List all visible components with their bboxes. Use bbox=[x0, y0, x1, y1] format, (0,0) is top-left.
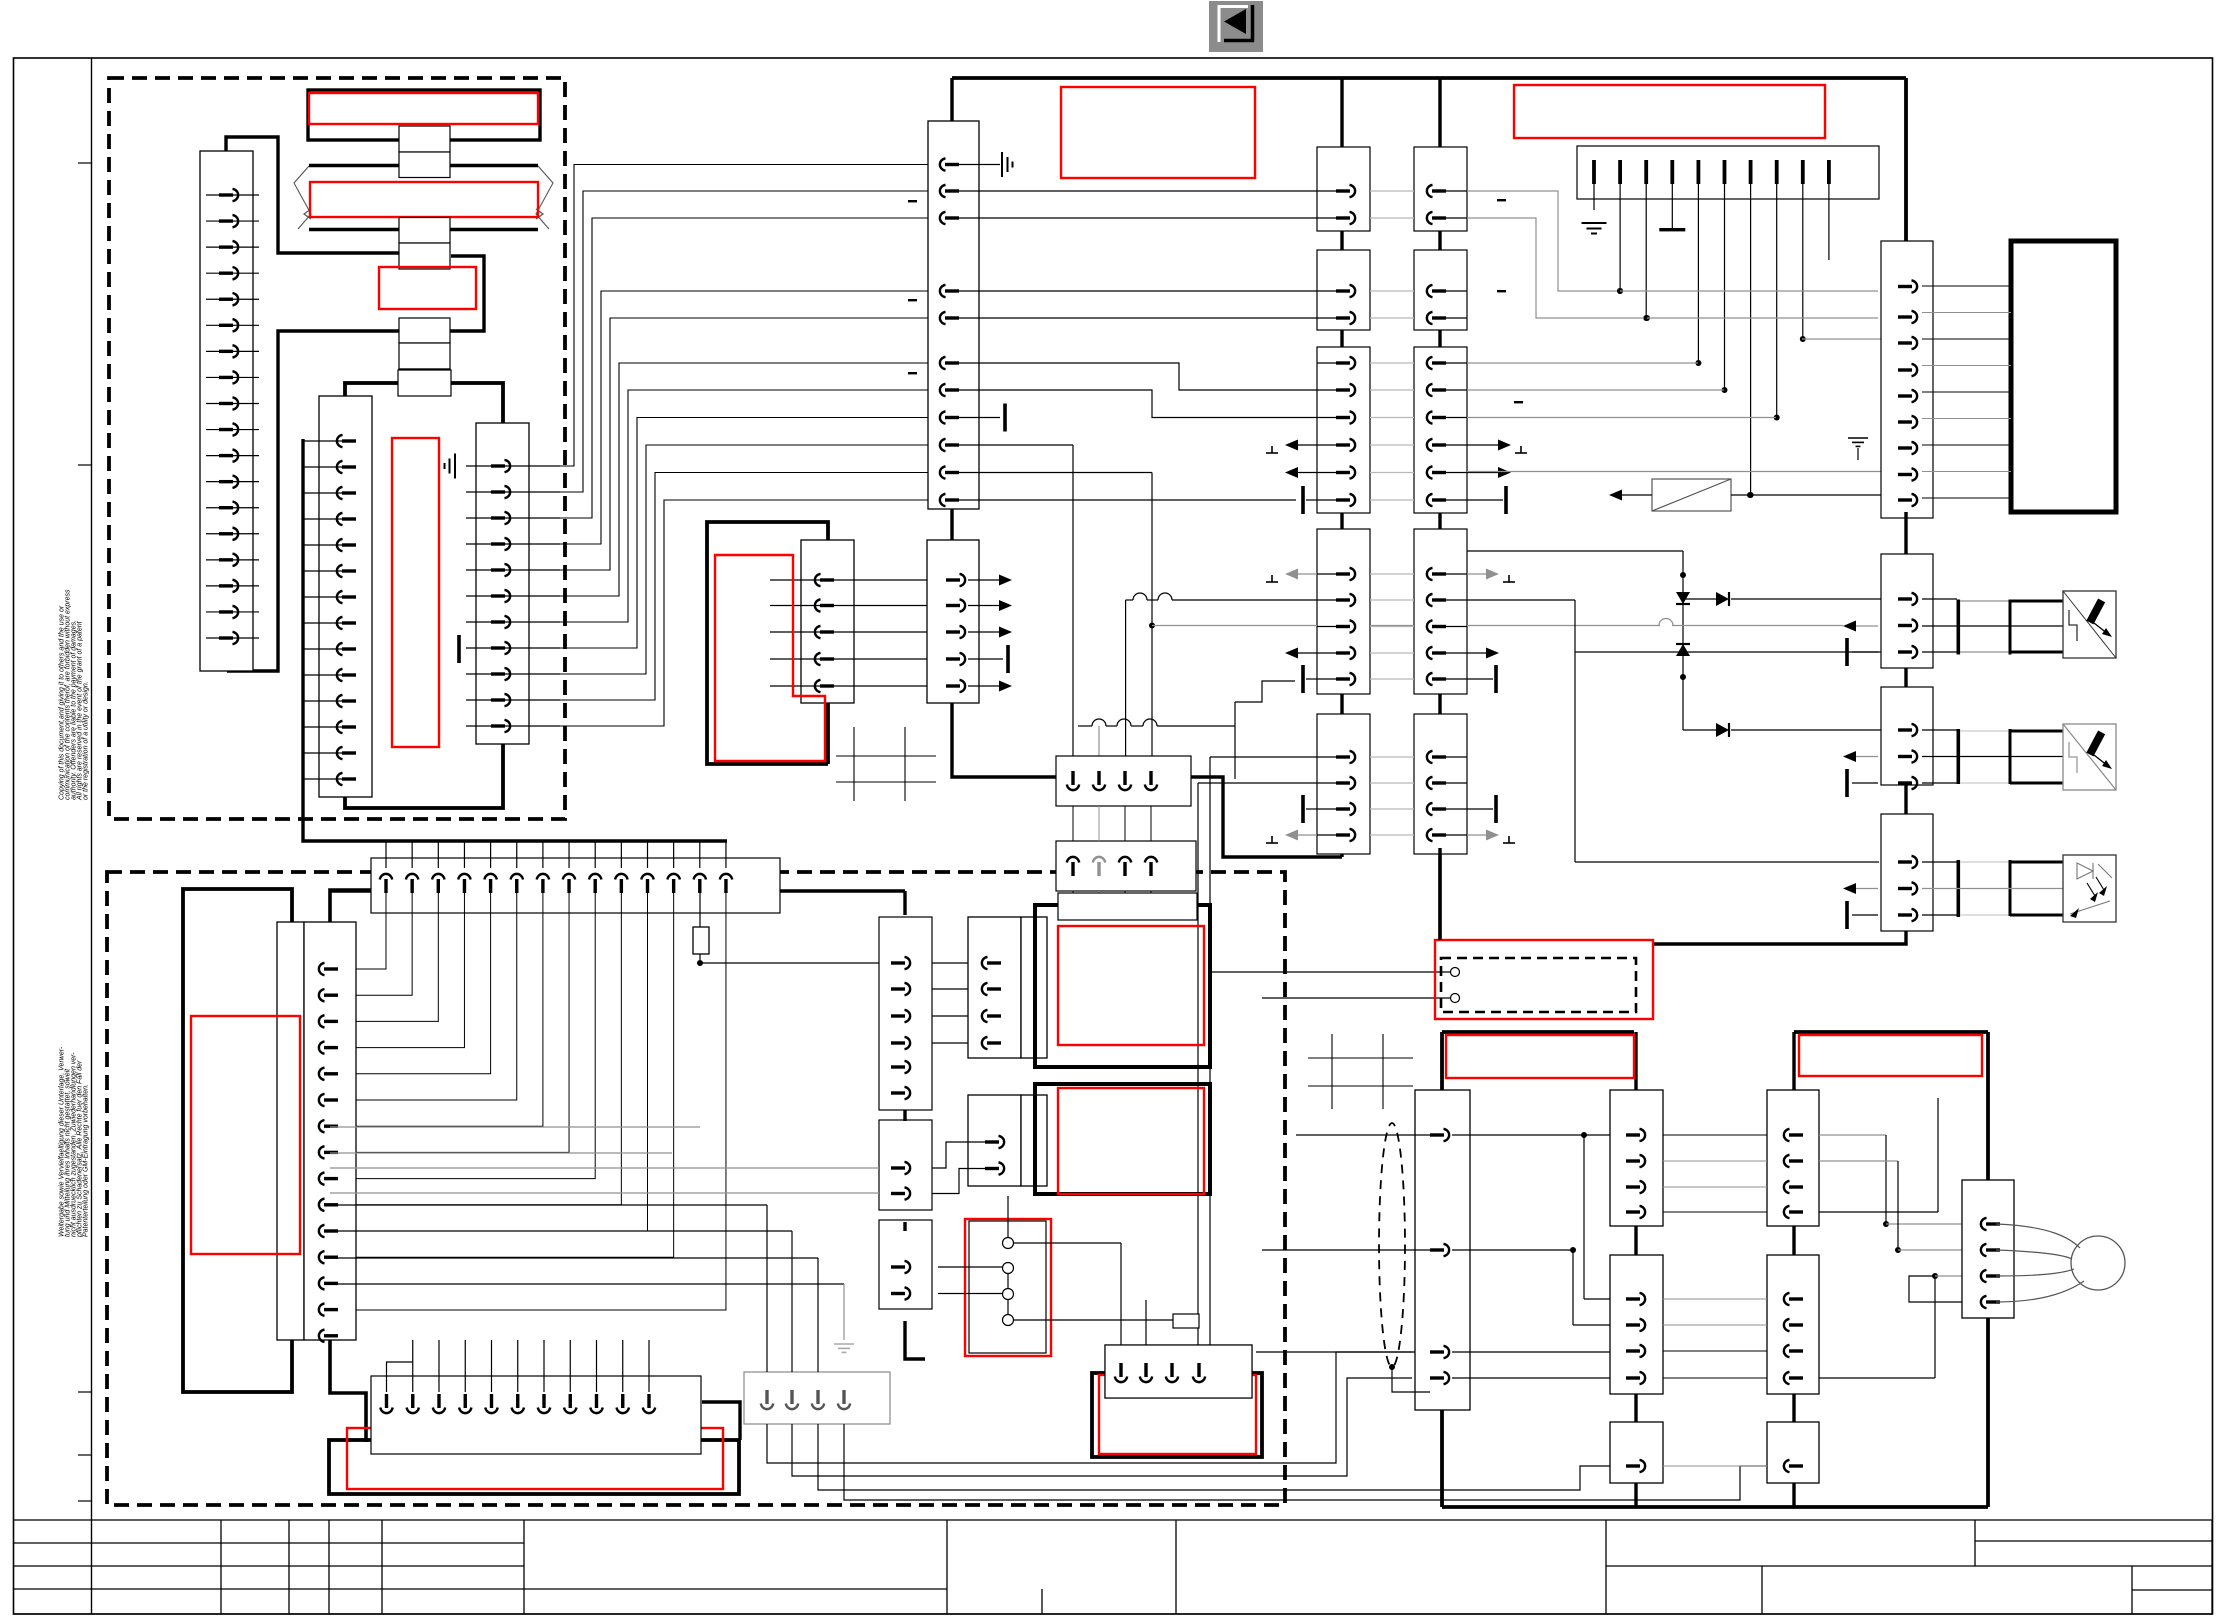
pin S3-7 bbox=[466, 621, 560, 623]
pin NM bbox=[1981, 1270, 1987, 1282]
pin P4 down bbox=[1170, 1363, 1173, 1377]
pin S4-9 bbox=[319, 1172, 325, 1184]
switch contact 2 bbox=[1003, 1263, 1014, 1274]
wire into NL bbox=[1296, 1134, 1442, 1136]
connector chain stack bbox=[399, 126, 450, 152]
pin K1 bbox=[1336, 598, 1350, 601]
pin K2 bbox=[1427, 212, 1433, 224]
pin K1 bbox=[1336, 216, 1350, 219]
wire rows S4 extensions bbox=[330, 1126, 700, 1128]
component band B2 chevron right bbox=[536, 166, 553, 229]
fold mark ticks bbox=[78, 162, 92, 164]
pin H1-4 bbox=[463, 841, 465, 868]
wire row 625 to C2 bbox=[1152, 625, 1317, 627]
wire rows to plug box bbox=[1210, 971, 1450, 973]
switch contact 1 bbox=[1003, 1238, 1014, 1249]
pin X10-5 bbox=[940, 312, 946, 324]
converter K3 bbox=[1652, 479, 1731, 511]
wire thick bus drop K2 bbox=[1438, 78, 1441, 147]
connector blocks NL2 bbox=[1610, 1090, 1663, 1226]
symbols row 445 bbox=[1266, 452, 1278, 454]
pin K4 bbox=[1898, 420, 1912, 423]
wire R1-R2 link bbox=[1150, 806, 1152, 841]
wire rows K4-1 to device bbox=[1922, 285, 2011, 287]
pin NL2 bbox=[1626, 1376, 1640, 1379]
wire jog row 363-390 bbox=[958, 363, 1338, 390]
wire F1-G2a bbox=[932, 988, 968, 990]
pin K4 bbox=[1898, 887, 1912, 890]
wire K1-K2 rows bbox=[1317, 362, 1338, 364]
pin NL bbox=[1430, 1376, 1444, 1379]
wire thick H1 backbone bbox=[330, 890, 371, 1442]
wire K1-K2 rows bbox=[1317, 290, 1338, 292]
wire NL2-NR bbox=[1663, 1211, 1767, 1213]
pin H2-10 bbox=[622, 1340, 624, 1392]
plug block P4 bbox=[1105, 1345, 1252, 1398]
pin K1 bbox=[1336, 316, 1350, 319]
pin K4 bbox=[1898, 755, 1912, 758]
pin S3-11 bbox=[466, 725, 560, 727]
highlight red box B3 bbox=[379, 267, 476, 309]
highlight red box top-mid bbox=[1061, 87, 1255, 178]
net dashes K2 jogs bbox=[1497, 199, 1506, 201]
pin NL2 bbox=[1626, 1464, 1640, 1467]
pin P4 down bbox=[1144, 1363, 1147, 1377]
pin S4-3 bbox=[319, 1015, 325, 1027]
pin H1-13 bbox=[699, 841, 701, 868]
wire exits bottom bbox=[767, 1352, 1412, 1463]
symbols row 574 bbox=[1266, 581, 1278, 583]
diode D4 row 730 bbox=[1683, 729, 1716, 731]
pin K4 bbox=[1898, 285, 1912, 288]
connector block K1-2 bbox=[1317, 250, 1370, 330]
pin S2-2 bbox=[303, 466, 356, 468]
highlight red motor label R bbox=[1799, 1035, 1982, 1076]
pin H1-12 bbox=[673, 841, 675, 868]
pin S1-6 bbox=[206, 324, 259, 326]
pin S3-6 bbox=[466, 595, 560, 597]
module M4 thick body bbox=[1092, 1373, 1262, 1457]
pin K2 bbox=[1427, 411, 1433, 423]
title block table bbox=[14, 1520, 2213, 1614]
pin K4 bbox=[1898, 498, 1912, 501]
wire R1-R2 link bbox=[1124, 806, 1126, 841]
pin F3 bbox=[891, 1265, 905, 1268]
wire NL2-NR bbox=[1663, 1350, 1767, 1352]
pin K1 bbox=[1336, 471, 1350, 474]
pin K1 bbox=[1336, 498, 1350, 501]
wire relay pin3 hop route bbox=[1125, 600, 1127, 775]
wire F1-G2a bbox=[932, 1042, 968, 1044]
wire R2 down bbox=[1072, 891, 1074, 918]
pin NL bbox=[1430, 1133, 1444, 1136]
splice pin 3 bbox=[1644, 160, 1648, 184]
wire NL2-NR bbox=[1663, 1134, 1767, 1136]
splice pin 1 bbox=[1592, 160, 1596, 184]
wire NL2-NR bbox=[1663, 1160, 1767, 1162]
pin K4 bbox=[1898, 913, 1912, 916]
pin S1-1 bbox=[206, 194, 259, 196]
wire K1-K2 rows bbox=[1317, 190, 1338, 192]
pin G1-2 bbox=[790, 1390, 793, 1404]
pin NR bbox=[1784, 1460, 1790, 1472]
pin S1-16 bbox=[206, 585, 259, 587]
pin H2-5 bbox=[491, 1340, 493, 1392]
highlight red in M4 bbox=[1099, 1375, 1256, 1454]
pin NL2 bbox=[1626, 1349, 1640, 1352]
wire thick bus drop right bbox=[1904, 78, 1908, 241]
device box big bbox=[2011, 241, 2116, 512]
symbols row 679 bbox=[1301, 665, 1305, 693]
P4 top small box bbox=[1173, 1314, 1199, 1328]
highlight red band B1 bbox=[309, 93, 538, 124]
connector strip S2 bbox=[319, 396, 372, 797]
pin R1 down bbox=[1097, 771, 1100, 785]
pin K4 bbox=[1898, 368, 1912, 371]
pin X10-4 bbox=[940, 285, 946, 297]
pin K4 bbox=[1898, 315, 1912, 318]
connector strip G2a bbox=[968, 917, 1021, 1058]
highlight red band B2 bbox=[310, 182, 538, 217]
pin K4 bbox=[1898, 781, 1912, 784]
pin X10-6 bbox=[940, 357, 946, 369]
dashed harness boundary A bbox=[109, 78, 565, 819]
pin H1-6 bbox=[516, 841, 518, 868]
pin S4-5 bbox=[319, 1068, 325, 1080]
pin F1 bbox=[891, 1091, 905, 1094]
pin S1-3 bbox=[206, 246, 259, 248]
pin X12-2 bbox=[946, 604, 960, 607]
pin H2-8 bbox=[569, 1340, 571, 1392]
pin F1 bbox=[891, 1041, 905, 1044]
pin S2-1 bbox=[303, 440, 356, 442]
pin P4 down bbox=[1119, 1363, 1122, 1377]
connector block K2-5 bbox=[1414, 714, 1467, 854]
pin X10-11 bbox=[940, 494, 946, 506]
pin NR bbox=[1784, 1372, 1790, 1384]
pin NL2 bbox=[1626, 1323, 1640, 1326]
module M1 thick frame bbox=[707, 522, 828, 764]
pin G1-4 bbox=[842, 1390, 845, 1404]
pin S1-9 bbox=[206, 402, 259, 404]
pin H2-1 bbox=[387, 1362, 413, 1392]
wire drop bundle rows 757-783 bbox=[1210, 756, 1317, 758]
pin X10-8 bbox=[940, 411, 946, 423]
pin S3-4 bbox=[466, 543, 560, 545]
connector strip S1 bbox=[200, 151, 253, 671]
pin NL2 bbox=[1626, 1210, 1640, 1213]
pin NR bbox=[1784, 1293, 1790, 1305]
component band B2 bbox=[309, 164, 538, 167]
module M2 top strip bbox=[1058, 893, 1197, 920]
wire NL routing bbox=[1452, 1134, 1610, 1136]
wire R2 down bbox=[1098, 891, 1100, 918]
pin X10-3 bbox=[940, 212, 946, 224]
pin H2-9 bbox=[596, 1340, 598, 1392]
pin S2-8 bbox=[303, 622, 356, 624]
pin S4-4 bbox=[319, 1041, 325, 1053]
splice pin 8 bbox=[1775, 160, 1779, 184]
pin F1 bbox=[891, 1065, 905, 1068]
opto group OP3 bbox=[1922, 861, 1957, 863]
pin G1-3 bbox=[816, 1390, 819, 1404]
pin NR bbox=[1784, 1155, 1790, 1167]
connector strip X12 bbox=[927, 540, 979, 703]
dashed harness boundary B bbox=[107, 872, 1285, 1505]
pin S1-4 bbox=[206, 272, 259, 274]
symbols K4-4 rows bbox=[1843, 883, 1856, 894]
pin S2-12 bbox=[303, 726, 356, 728]
pin K4 bbox=[1898, 597, 1912, 600]
wire switch rows bbox=[938, 1266, 1002, 1268]
highlight red motor label L bbox=[1446, 1035, 1634, 1078]
pin S1-12 bbox=[206, 481, 259, 483]
pin G1-1 bbox=[765, 1390, 768, 1404]
highlight red L-shape bbox=[715, 555, 825, 761]
pin K1 bbox=[1336, 361, 1350, 364]
pin K1 bbox=[1336, 443, 1350, 446]
ground chassis right bbox=[1848, 438, 1868, 446]
pin K2 bbox=[1427, 494, 1433, 506]
pin S2-13 bbox=[303, 752, 356, 754]
pin P4 down bbox=[1197, 1363, 1200, 1377]
pin K2 bbox=[1427, 829, 1433, 841]
pin R2 up bbox=[1093, 857, 1105, 863]
connector block K2-3 bbox=[1414, 347, 1467, 513]
pin NR bbox=[1784, 1129, 1790, 1141]
wire row 600 right bbox=[1467, 599, 1575, 601]
wire thick K4 to plug bbox=[1653, 931, 1906, 944]
pin S4-7 bbox=[319, 1120, 325, 1132]
pin S4-8 bbox=[319, 1146, 325, 1158]
svg-text:Patenterteilung oder GM-Eintra: Patenterteilung oder GM-Eintragung vorbe… bbox=[83, 1084, 90, 1237]
module M2 thick body bbox=[1035, 905, 1210, 1067]
splice pin 5 bbox=[1697, 160, 1701, 184]
wire K1-K2 rows bbox=[1317, 573, 1338, 575]
pin X11-4 bbox=[770, 658, 927, 660]
wire bundle S3 to X10 bbox=[521, 165, 928, 467]
pin K1 bbox=[1336, 572, 1350, 575]
pin K2 bbox=[1427, 647, 1433, 659]
switch box red bbox=[965, 1219, 1051, 1356]
pin H2-4 bbox=[464, 1340, 466, 1392]
pin K4 bbox=[1898, 446, 1912, 449]
pin K1 bbox=[1336, 781, 1350, 784]
pin G2b bbox=[985, 1140, 999, 1143]
pin X10-1 bbox=[940, 158, 946, 170]
connector block K2-2 bbox=[1414, 250, 1467, 330]
wire H1 pin14 staircase bbox=[356, 891, 726, 1310]
pin S4-14 bbox=[319, 1303, 325, 1315]
pin K1 bbox=[1336, 289, 1350, 292]
connector block F3 bbox=[879, 1220, 932, 1309]
connector strip S4 narrow bbox=[277, 922, 304, 1340]
symbols row 835 bbox=[1266, 842, 1278, 844]
pin G2a bbox=[982, 1037, 988, 1049]
pin H2-2 bbox=[412, 1340, 414, 1392]
pin R2 up bbox=[1145, 857, 1157, 863]
splice pin 7 bbox=[1749, 160, 1753, 184]
pin S1-14 bbox=[206, 533, 259, 535]
connector block K4-4 bbox=[1881, 814, 1933, 931]
wire rows S4 to G blocks bbox=[330, 1167, 879, 1169]
pin R1 down bbox=[1071, 771, 1074, 785]
wire NR routing to motor plug bbox=[1819, 1134, 1886, 1136]
ground chassis at X10 pin1 bbox=[958, 164, 1000, 166]
crossing grid symbol 2 bbox=[1308, 1057, 1413, 1059]
component band B2 chevron left bbox=[294, 166, 311, 229]
connector block F2 bbox=[879, 1120, 932, 1210]
pin F2 bbox=[891, 1166, 905, 1169]
highlight red in M3 bbox=[1058, 1088, 1204, 1194]
wire thick bus drop K1 bbox=[1340, 78, 1343, 147]
pin P4 down bbox=[1197, 1363, 1200, 1377]
pin K2 bbox=[1427, 439, 1433, 451]
pin X12-1 bbox=[946, 578, 960, 581]
pin S1-17 bbox=[206, 611, 259, 613]
pin S4-12 bbox=[319, 1251, 325, 1263]
diode D2 up bbox=[1676, 644, 1690, 656]
pin S4-10 bbox=[319, 1199, 325, 1211]
pin H1-10 bbox=[620, 841, 622, 868]
pin K2 bbox=[1427, 751, 1433, 763]
arrow out X12-1 bbox=[968, 579, 999, 581]
pin NR bbox=[1784, 1319, 1790, 1331]
symbols row 809 bbox=[1301, 795, 1305, 823]
pin S3-2 bbox=[466, 491, 560, 493]
pin S4-1 bbox=[319, 963, 325, 975]
termination bar X12-4 bbox=[968, 658, 1003, 660]
pin K1 bbox=[1336, 833, 1350, 836]
wire thick top bus bbox=[952, 76, 1906, 80]
wire gray splice rows bbox=[1467, 362, 1698, 364]
pin S1-11 bbox=[206, 455, 259, 457]
pin NM bbox=[1981, 1296, 1987, 1308]
pin F1 bbox=[891, 1014, 905, 1017]
connector block K2-1 bbox=[1414, 147, 1467, 231]
relay block R2 bbox=[1056, 841, 1196, 891]
pin NR bbox=[1784, 1345, 1790, 1357]
pin X10-2 bbox=[940, 185, 946, 197]
net dash right of K2 bbox=[1514, 401, 1523, 403]
symbols row 653 bbox=[1285, 648, 1298, 659]
pin H1-11 bbox=[647, 841, 649, 868]
highlight red box top-right bbox=[1514, 85, 1825, 138]
pin K2 bbox=[1427, 673, 1433, 685]
wire jog row 390-417 bbox=[958, 390, 1338, 418]
pin K4 bbox=[1898, 624, 1912, 627]
wire R2 down bbox=[1124, 891, 1126, 918]
motor unit thick frame bbox=[1442, 1030, 1634, 1034]
pin F1 bbox=[891, 987, 905, 990]
wire jog row 218-318 bbox=[1467, 218, 1647, 318]
connector block K1-4 bbox=[1317, 529, 1370, 694]
wire thick H2 right stub bbox=[702, 1402, 740, 1440]
module M0 thick body bbox=[345, 383, 503, 808]
pin K2 bbox=[1427, 777, 1433, 789]
wire F1-G2a bbox=[932, 1015, 968, 1017]
switch contact 3 bbox=[1003, 1289, 1014, 1300]
pin K4 bbox=[1898, 860, 1912, 863]
pin H1-7 bbox=[542, 841, 544, 868]
splice header X20 bbox=[1577, 146, 1879, 199]
gray block G1 bbox=[744, 1372, 890, 1424]
symbols row 472.5 bbox=[1285, 467, 1298, 478]
pin R2 up bbox=[1067, 857, 1079, 863]
pin K2 bbox=[1427, 594, 1433, 606]
wire thick plug feed bbox=[1438, 848, 1441, 940]
connector block K1-3 bbox=[1317, 347, 1370, 513]
pin F1 bbox=[891, 961, 905, 964]
pin G2a bbox=[982, 1010, 988, 1022]
pin NR bbox=[1784, 1181, 1790, 1193]
pin K1 bbox=[1336, 651, 1350, 654]
connector strip G2b bbox=[968, 1095, 1021, 1186]
module M1 frame right lower bbox=[826, 703, 830, 764]
pin K1 bbox=[1336, 625, 1350, 628]
arrow out X12-5 bbox=[968, 685, 999, 687]
pin S1-10 bbox=[206, 429, 259, 431]
pin NM bbox=[1981, 1244, 1987, 1256]
plug block P4 overlay bbox=[1105, 1345, 1252, 1398]
pin K1 bbox=[1336, 677, 1350, 680]
ground chassis at S3 pin1 bbox=[445, 454, 456, 479]
pin H1-14 bbox=[725, 841, 727, 868]
pin S1-8 bbox=[206, 376, 259, 378]
pin S2-3 bbox=[303, 492, 356, 494]
pin K2 bbox=[1427, 357, 1433, 369]
wire G2b jogs bbox=[932, 1142, 986, 1168]
symbols row 500 bbox=[1301, 486, 1305, 514]
pin S1-13 bbox=[206, 507, 259, 509]
wire converter right bbox=[1731, 494, 1881, 496]
wire NL2-NR bbox=[1663, 1324, 1767, 1326]
diode D1 down bbox=[1676, 592, 1690, 604]
pin X12-4 bbox=[946, 657, 960, 660]
pin K4 bbox=[1898, 650, 1912, 653]
pin H1-9 bbox=[594, 841, 596, 868]
opto group OP1 bbox=[1922, 598, 1957, 600]
pin S4-6 bbox=[319, 1094, 325, 1106]
pin K2 bbox=[1427, 466, 1433, 478]
pin K1 bbox=[1336, 416, 1350, 419]
wire NR vertical 1938 bbox=[1937, 1098, 1939, 1212]
pin F3 bbox=[891, 1292, 905, 1295]
pin K1 bbox=[1336, 807, 1350, 810]
splice pin 2 bbox=[1618, 160, 1622, 184]
wire thick F links bbox=[903, 1110, 906, 1121]
pin NL bbox=[1430, 1248, 1444, 1251]
wire K1-K2 rows bbox=[1317, 756, 1338, 758]
component band B1 bbox=[308, 90, 540, 140]
connector strip X11 bbox=[801, 540, 854, 703]
pin H2-11 bbox=[648, 1340, 650, 1392]
pin S2-7 bbox=[303, 596, 356, 598]
splice pin 9 bbox=[1801, 160, 1805, 184]
splice pin 6 bbox=[1723, 160, 1727, 184]
connector block K4-2 bbox=[1881, 554, 1933, 668]
wire P4 feeds bbox=[1120, 1243, 1122, 1345]
crossing grid symbol 1 bbox=[836, 755, 936, 757]
pin X10-9 bbox=[940, 439, 946, 451]
pin NL2 bbox=[1626, 1297, 1640, 1300]
pin S1-7 bbox=[206, 350, 259, 352]
pin H2-3 bbox=[438, 1340, 440, 1392]
svg-text:or the registration of a utili: or the registration of a utility or desi… bbox=[83, 681, 90, 800]
connector blocks NR bbox=[1767, 1090, 1819, 1226]
connector block K4-3 bbox=[1881, 687, 1933, 785]
opto group OP2 bbox=[1922, 729, 1957, 731]
